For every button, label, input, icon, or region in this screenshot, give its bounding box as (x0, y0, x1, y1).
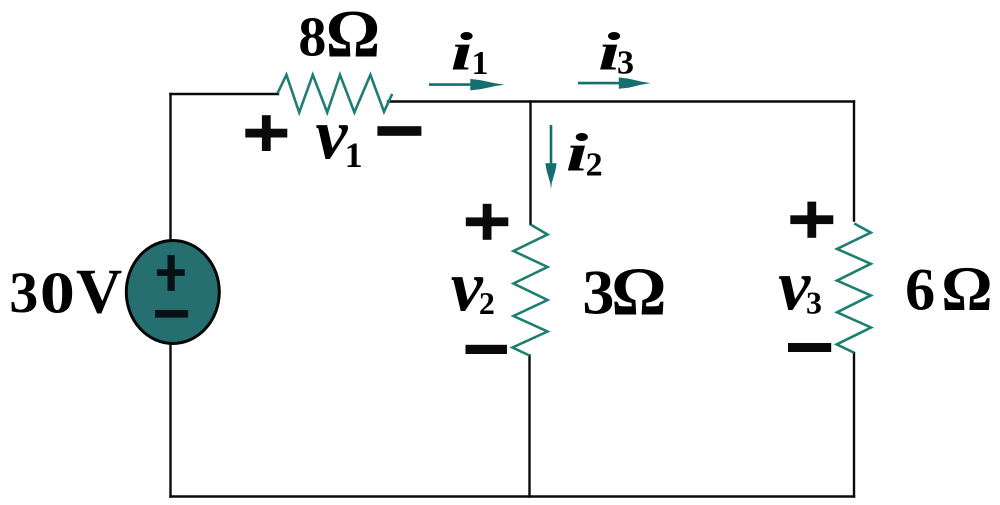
svg-text:Ω: Ω (326, 0, 380, 72)
svg-text:i: i (598, 22, 621, 82)
svg-text:0: 0 (40, 260, 75, 326)
svg-text:i: i (451, 22, 474, 82)
svg-text:v: v (316, 94, 349, 174)
svg-text:v: v (778, 245, 811, 325)
svg-text:i: i (566, 123, 589, 183)
svg-text:3: 3 (582, 256, 614, 327)
svg-text:v: v (451, 247, 484, 327)
svg-text:V: V (76, 255, 122, 326)
svg-text:8: 8 (298, 7, 326, 69)
svg-text:1: 1 (472, 45, 489, 82)
svg-text:6: 6 (905, 257, 935, 323)
svg-text:3: 3 (9, 260, 38, 325)
svg-text:Ω: Ω (611, 254, 666, 330)
svg-text:Ω: Ω (941, 253, 992, 324)
